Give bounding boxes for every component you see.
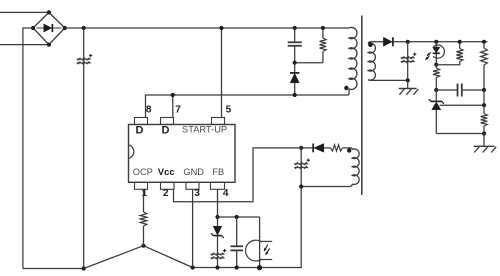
diode D1 (snubber clamp): [290, 63, 299, 95]
transformer T1 primary winding: [349, 27, 357, 95]
optocoupler U2 LED side: [425, 42, 444, 65]
node bridge left: [31, 26, 35, 30]
optocoupler U2 transistor side: [246, 217, 273, 268]
capacitor C6 (FB filter): [230, 217, 243, 268]
label Vcc: [158, 167, 175, 178]
wire snubber node: [295, 62, 323, 64]
wire pin5 riser (start-up to rail): [221, 28, 223, 118]
wire diagonal left (to OCP sense): [84, 246, 144, 269]
node vout-cout: [406, 40, 410, 44]
node aux return: [299, 184, 303, 188]
wire bottom-left bus: [23, 268, 84, 270]
wire TL431 anode: [436, 133, 484, 135]
pin 7 box: [161, 118, 174, 125]
capacitor C4 (feedback): [436, 84, 484, 97]
wire AC input top: [0, 11, 49, 13]
node OCP sense apex: [141, 244, 145, 248]
svg-text:8: 8: [146, 105, 152, 116]
node drain-snubber: [293, 93, 297, 97]
pin 1 box: [135, 182, 148, 189]
wire divider mid: [483, 90, 485, 105]
svg-text:D: D: [162, 125, 170, 137]
transformer core: [361, 16, 363, 196]
capacitor C3 (output electrolytic): [401, 42, 417, 81]
node rail-snubber-cap: [293, 26, 297, 30]
pin 3 box: [186, 182, 199, 189]
node rail-startup: [219, 26, 223, 30]
label D (pin7 drain): [162, 125, 170, 137]
label pin number 3: [194, 188, 200, 199]
node divider-c4: [482, 88, 486, 92]
node led-bottom: [434, 63, 438, 67]
capacitor C1 (bulk electrolytic): [77, 54, 93, 64]
svg-text:3: 3: [194, 188, 200, 199]
label START-UP: [182, 125, 227, 135]
label pin number 5: [226, 105, 232, 116]
svg-text:GND: GND: [183, 167, 204, 177]
node vout-r2: [458, 40, 462, 44]
svg-text:2: 2: [163, 188, 169, 199]
node primary phase dot: [344, 86, 348, 90]
node bridge right: [63, 26, 67, 30]
node aux rect out: [299, 146, 303, 150]
wire DC positive rail (top): [65, 27, 349, 29]
label FB: [212, 167, 224, 177]
node secondary phase dot: [368, 43, 373, 48]
node c6-gnd: [235, 265, 239, 269]
pin 5 box: [212, 118, 225, 125]
wire Vcc pin2 to aux: [174, 148, 302, 202]
bridge rectifier BR1: [33, 12, 65, 44]
resistor R7 (OCP sense): [140, 189, 147, 245]
node aux phase dot: [347, 148, 351, 152]
wire DC negative (bridge left to bottom-left rail): [23, 28, 33, 269]
capacitor C7 (FB electrolytic): [211, 249, 227, 259]
svg-text:5: 5: [226, 105, 232, 116]
node fb-c6: [235, 215, 239, 219]
label pin number 2: [163, 188, 169, 199]
ground (secondary): [399, 80, 419, 94]
pin 4 box: [211, 182, 225, 189]
label pin number 8: [146, 105, 152, 116]
node gnd-pin3: [191, 265, 195, 269]
node divider-anode: [482, 131, 486, 135]
node divider-ref: [482, 103, 486, 107]
label pin number 1: [142, 188, 148, 199]
svg-text:Vcc: Vcc: [158, 167, 175, 178]
capacitor C5 (aux electrolytic): [294, 148, 310, 187]
shunt regulator U3 (TL431): [429, 90, 444, 134]
label OCP: [133, 167, 153, 177]
node drain-pin7: [171, 93, 175, 97]
capacitor C2 (snubber): [288, 28, 302, 63]
node fb bus left: [215, 215, 219, 219]
resistor R1 (snubber): [320, 28, 327, 63]
pin 8 box: [135, 118, 148, 125]
wire bulk cap branch: [83, 28, 85, 269]
wire diagonal right (to ground bus): [144, 246, 193, 268]
label pin number 7: [175, 105, 181, 116]
svg-text:4: 4: [223, 188, 229, 199]
svg-text:START-UP: START-UP: [182, 125, 227, 135]
node r3-cref: [434, 88, 438, 92]
node rail-snubber-res: [321, 26, 325, 30]
resistor R2 (LED parallel): [436, 42, 463, 65]
wire TL431 ref: [440, 104, 484, 106]
node fbz-gnd: [215, 265, 219, 269]
node bridge bottom: [47, 43, 51, 47]
resistor R5 (divider bottom): [481, 105, 488, 133]
node secondary return: [406, 78, 410, 82]
node bulk-bottom: [82, 266, 86, 270]
node opto-emitter-gnd: [257, 265, 262, 270]
svg-text:OCP: OCP: [133, 167, 153, 177]
wire GND pin3: [192, 189, 194, 267]
node bridge top: [47, 10, 51, 14]
wire bottom ground bus: [193, 187, 302, 268]
label pin number 4: [223, 188, 229, 199]
label D (pin8 drain): [136, 125, 144, 137]
node vout-divider: [482, 40, 486, 44]
svg-text:1: 1: [142, 188, 148, 199]
ground (secondary divider): [474, 134, 497, 153]
diode D4 (FB zener): [211, 217, 224, 268]
diode D2 (output rectifier): [383, 37, 487, 46]
resistor R6 (aux series): [331, 145, 351, 151]
wire FB pin4: [217, 189, 219, 217]
wire FB bus: [218, 216, 260, 218]
node vout-opto: [434, 40, 438, 44]
transformer T1 aux winding: [301, 148, 359, 187]
resistor R4 (divider top): [481, 42, 488, 90]
transformer T1 secondary winding: [368, 42, 408, 81]
resistor R3 (LED series): [433, 65, 440, 90]
svg-text:FB: FB: [212, 167, 224, 177]
wire AC input bottom: [0, 44, 49, 46]
pin 2 box: [161, 182, 175, 189]
label GND: [183, 167, 204, 177]
node rail-bulkcap: [82, 26, 86, 30]
node snubber mid: [293, 61, 297, 65]
wire pin7 riser: [172, 95, 174, 118]
diode D3 (aux rectifier): [301, 144, 330, 153]
wire pin8 riser: [146, 95, 350, 118]
op IC U1 body: [129, 125, 236, 183]
svg-text:D: D: [136, 125, 144, 137]
svg-text:7: 7: [175, 105, 181, 116]
